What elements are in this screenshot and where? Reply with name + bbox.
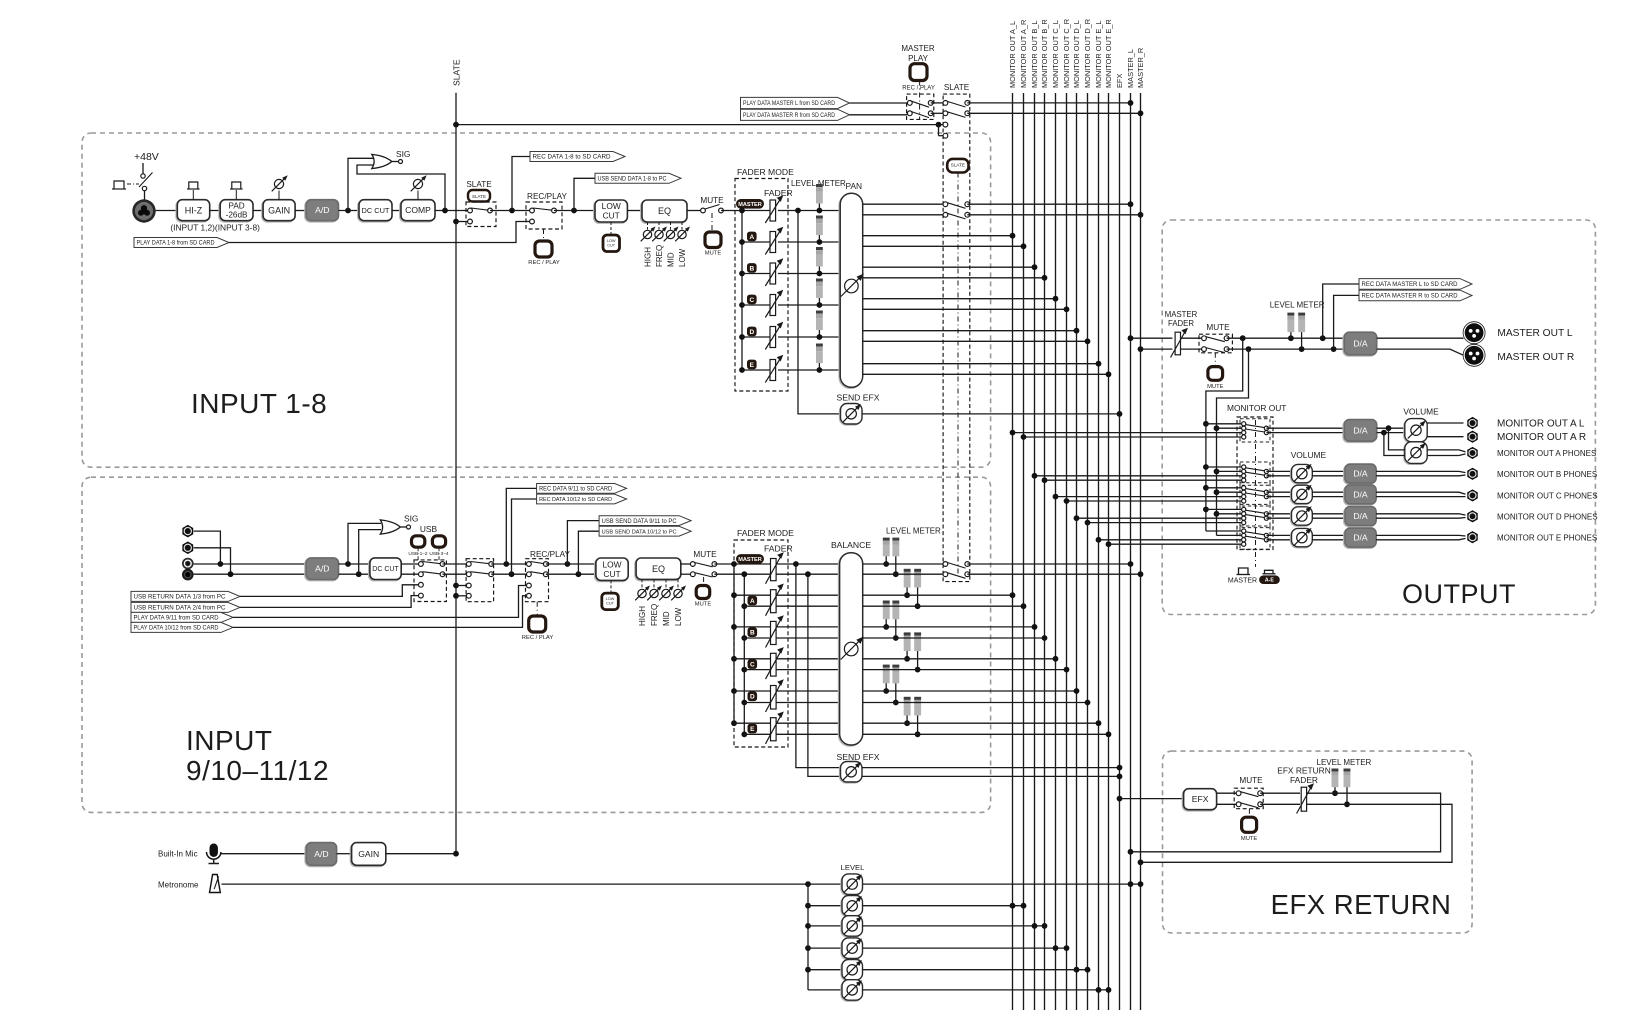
svg-text:MONITOR OUT D_R: MONITOR OUT D_R: [1083, 19, 1092, 88]
svg-text:MASTER_R: MASTER_R: [1136, 48, 1145, 88]
svg-text:SLATE: SLATE: [472, 194, 486, 199]
wire master 9/10 L to MASTER_L bus: [967, 561, 1133, 567]
wire efx return R to MASTER_R bus: [1138, 804, 1452, 865]
wire A/D to DC CUT: [339, 208, 360, 214]
button MUTE (efx return): [1241, 817, 1258, 842]
section label INPUT 9/10-11/12: [186, 725, 329, 786]
block LOW CUT (1-8): [594, 200, 628, 235]
section box EFX RETURN: [1163, 751, 1473, 933]
svg-text:MUTE: MUTE: [693, 550, 717, 559]
svg-text:BALANCE: BALANCE: [831, 540, 871, 550]
wire PLAY DATA MASTER L: [741, 97, 910, 108]
wire mute to D/A (output): [1227, 335, 1345, 352]
wire volume to D/A (monitor D): [1312, 514, 1345, 518]
pill MASTER (9/10): [737, 555, 764, 564]
switch SLATE (9/10): [453, 559, 494, 602]
block D/A (master): [1343, 332, 1377, 356]
wire volume to D/A (monitor C): [1312, 492, 1345, 496]
jack INPUT 11/12 R: [182, 569, 194, 581]
svg-text:A-E: A-E: [1265, 578, 1274, 584]
wire D/A to B PHONES jack: [1376, 471, 1465, 475]
svg-text:D/A: D/A: [1353, 339, 1368, 349]
icon metronome: [210, 875, 221, 893]
svg-text:CUT: CUT: [607, 244, 615, 248]
label Metronome: [158, 880, 199, 889]
wires level knobs to buses: [863, 881, 1144, 993]
wire 9-12 R to A/D: [194, 571, 307, 577]
svg-text:C: C: [749, 297, 754, 304]
svg-text:D/A: D/A: [1353, 533, 1368, 543]
label MONITOR OUT A PHONES: [1497, 449, 1596, 458]
svg-text:USB SEND DATA 1-8 to PC: USB SEND DATA 1-8 to PC: [598, 177, 668, 183]
switch USB (9/10): [414, 560, 446, 602]
svg-text:OUTPUT: OUTPUT: [1402, 579, 1516, 609]
svg-text:PLAY DATA 9/11 from SD CARD: PLAY DATA 9/11 from SD CARD: [134, 615, 220, 622]
svg-text:MONITOR OUT E PHONES: MONITOR OUT E PHONES: [1497, 533, 1597, 542]
svg-text:MUTE: MUTE: [1206, 323, 1230, 332]
wire recplay to lowcut (9/10): [546, 561, 596, 577]
block HI-Z: [176, 182, 210, 222]
svg-text:MUTE: MUTE: [695, 602, 712, 608]
wire PLAY DATA 9/11: [131, 586, 527, 623]
jack MASTER OUT L: [1463, 322, 1485, 344]
svg-text:SLATE: SLATE: [466, 180, 492, 189]
svg-text:MUTE: MUTE: [1239, 776, 1263, 785]
wire USB RETURN DATA 1/3: [131, 585, 419, 602]
meters LEVEL (output): [1287, 313, 1305, 350]
label MONITOR OUT: [1227, 403, 1286, 413]
fader EFX RETURN: [1277, 766, 1331, 814]
svg-text:MUTE: MUTE: [700, 196, 724, 205]
wire mic to A/D: [221, 853, 306, 855]
svg-text:REC/PLAY: REC/PLAY: [530, 550, 570, 559]
box FADER MODE (1-8): [735, 167, 794, 391]
svg-text:D/A: D/A: [1353, 489, 1368, 499]
wire PAD to GAIN: [253, 210, 263, 212]
svg-text:SLATE: SLATE: [944, 83, 970, 92]
wire monitor A D/A to volume: [1377, 425, 1405, 435]
svg-text:USB SEND DATA 10/12 to PC: USB SEND DATA 10/12 to PC: [602, 529, 678, 535]
knob VOLUME (monitor C): [1291, 485, 1313, 505]
block EQ (9/10): [635, 558, 681, 581]
label VOLUME (monitor A): [1403, 407, 1439, 417]
wire mute to fader (efx return): [1260, 793, 1300, 804]
knob SEND EFX (1-8): [837, 393, 880, 426]
wire level knob feed column: [805, 884, 842, 990]
knob VOLUME (monitor D): [1291, 506, 1313, 526]
label MONITOR OUT B PHONES: [1497, 470, 1597, 479]
svg-text:USB RETURN DATA 2/4 from PC: USB RETURN DATA 2/4 from PC: [134, 605, 227, 612]
label USB: [420, 524, 438, 534]
label LEVEL METER (efx return): [1317, 758, 1372, 767]
jack MONITOR OUT B PHONES: [1468, 468, 1478, 479]
svg-text:MONITOR OUT E_R: MONITOR OUT E_R: [1104, 19, 1113, 88]
svg-text:Built-In Mic: Built-In Mic: [158, 850, 198, 859]
label MONITOR OUT E PHONES: [1497, 533, 1597, 542]
svg-text:REC DATA 9/11 to SD CARD: REC DATA 9/11 to SD CARD: [539, 487, 613, 493]
block GAIN (mic): [351, 843, 386, 867]
svg-text:MONITOR OUT: MONITOR OUT: [1227, 403, 1286, 413]
svg-text:SLATE: SLATE: [452, 59, 462, 86]
svg-text:D: D: [749, 329, 754, 336]
wire mute to fader mode: [721, 210, 770, 212]
faders MASTER A-E (1-8): [742, 195, 783, 382]
box MONITOR OUT selects (gang): [1237, 417, 1273, 567]
wire D/A to XLR R: [1377, 349, 1464, 355]
label MASTER OUT L: [1497, 328, 1572, 339]
svg-text:A/D: A/D: [314, 849, 328, 859]
svg-text:FADER MODE: FADER MODE: [737, 167, 794, 177]
svg-text:DC CUT: DC CUT: [372, 566, 399, 573]
svg-text:PAD: PAD: [228, 202, 244, 211]
svg-text:A: A: [749, 234, 754, 241]
wire 9-12 L to A/D: [194, 561, 307, 567]
svg-text:LOW: LOW: [678, 248, 687, 267]
block COMP: [400, 175, 435, 222]
wire pan master L to slate switch: [863, 203, 946, 205]
wires balance out to buses (9/10): [863, 564, 1112, 737]
block D/A (monitor E): [1344, 528, 1376, 548]
svg-text:MONITOR OUT A PHONES: MONITOR OUT A PHONES: [1497, 449, 1596, 458]
wire EFX to mute: [1217, 793, 1239, 804]
label (INPUT 1,2)(INPUT 3-8): [170, 223, 260, 233]
switch MUTE (output): [1199, 323, 1232, 367]
wires pan A-E to monitor buses: [863, 233, 1112, 377]
label Built-In Mic: [158, 850, 198, 859]
svg-text:CUT: CUT: [606, 602, 614, 606]
wire master 9/10 R to MASTER_R bus: [967, 571, 1143, 577]
wire master play L to MASTER_L bus: [967, 100, 1133, 106]
label LEVEL (metronome): [841, 863, 865, 872]
jack INPUT 9/10 L: [183, 525, 221, 564]
svg-text:Metronome: Metronome: [158, 880, 199, 889]
gate SIG detector: [348, 149, 445, 211]
wire USB RETURN DATA 2/4: [131, 596, 419, 613]
wire slate to recplay (9/10): [491, 561, 529, 577]
svg-text:FREQ: FREQ: [650, 604, 659, 626]
button MUTE (9/10): [695, 586, 712, 608]
knob SEND EFX (9/10): [837, 752, 880, 783]
svg-text:SIG: SIG: [404, 514, 418, 524]
button LOW CUT (9/10): [602, 593, 619, 610]
svg-text:LEVEL: LEVEL: [841, 863, 865, 872]
svg-text:HI-Z: HI-Z: [185, 205, 203, 215]
section label OUTPUT: [1402, 579, 1516, 609]
jack MONITOR OUT D PHONES: [1468, 511, 1478, 522]
wire fader mode buses (9/10): [731, 561, 747, 737]
svg-text:B: B: [749, 265, 754, 272]
svg-text:LOW: LOW: [607, 239, 616, 243]
wire REC DATA MASTER L tap: [1323, 279, 1472, 339]
svg-text:PLAY DATA MASTER R from SD CAR: PLAY DATA MASTER R from SD CARD: [743, 112, 836, 119]
svg-text:D/A: D/A: [1353, 425, 1368, 435]
wire monitor A select to D/A: [1266, 428, 1344, 432]
button USB 3-4: [429, 536, 449, 560]
wire USB switch to slate (9/10): [443, 564, 469, 574]
svg-text:MASTER: MASTER: [901, 44, 935, 53]
button REC/PLAY (input 1-8): [528, 241, 560, 266]
wire MASTER_L bus to fader: [1128, 335, 1173, 341]
svg-text:REC / PLAY: REC / PLAY: [528, 260, 560, 266]
svg-text:E: E: [750, 362, 755, 369]
wire jack to HI-Z: [156, 210, 178, 212]
svg-text:EFX: EFX: [1192, 794, 1209, 804]
svg-text:HIGH: HIGH: [638, 606, 647, 626]
button REC/PLAY (9/10): [522, 616, 554, 641]
block D/A (monitor C): [1344, 485, 1376, 505]
label MASTER OUT R: [1497, 352, 1574, 363]
label MONITOR OUT A L: [1497, 419, 1585, 430]
box FADER MODE (9/10): [734, 528, 794, 747]
switch SLATE contacts (master 9/10): [943, 562, 970, 579]
switches MONITOR OUT A-E: [1203, 419, 1270, 549]
wire volume to D/A (monitor E): [1312, 535, 1345, 539]
wire slate to rec/play (1-8): [490, 208, 532, 214]
wire PLAY DATA 10/12: [131, 596, 527, 633]
block D/A (monitor D): [1344, 507, 1376, 527]
jack INPUT 9/10 R: [183, 542, 231, 574]
label FADER (1-8): [764, 188, 793, 198]
svg-text:COMP: COMP: [405, 205, 431, 215]
svg-text:USB RETURN DATA 1/3 from PC: USB RETURN DATA 1/3 from PC: [134, 594, 227, 601]
switch phantom power: [112, 163, 153, 191]
svg-text:REC / PLAY: REC / PLAY: [902, 86, 935, 92]
wire EQ to mute: [687, 210, 703, 212]
wire REC DATA 1-8 tap: [512, 152, 625, 211]
svg-text:PLAY DATA MASTER L from SD CAR: PLAY DATA MASTER L from SD CARD: [743, 100, 836, 107]
node +48V: [134, 151, 159, 163]
svg-text:EQ: EQ: [658, 206, 671, 216]
svg-text:C: C: [750, 662, 755, 669]
svg-text:VOLUME: VOLUME: [1291, 450, 1327, 460]
knob VOLUME (monitor A phones): [1404, 442, 1427, 465]
wires faders to PAN (1-8): [778, 211, 840, 371]
wire phones knob to A PHONES jack: [1427, 450, 1465, 456]
label FADER (9/10): [764, 544, 793, 554]
svg-text:-26dB: -26dB: [226, 211, 248, 220]
wire D/A to E PHONES jack: [1376, 535, 1465, 539]
wire fader mode bus (1-8): [739, 208, 745, 373]
svg-text:SLATE: SLATE: [951, 163, 965, 168]
svg-text:LEVEL METER: LEVEL METER: [1317, 758, 1372, 767]
wire PLAY DATA MASTER R: [741, 109, 910, 120]
switch SLATE contacts (pan master 1-8): [943, 202, 970, 219]
svg-text:MUTE: MUTE: [1207, 384, 1224, 390]
switch MUTE (efx return): [1234, 776, 1263, 817]
pill MASTER (1-8): [737, 200, 764, 209]
svg-text:MONITOR OUT B_R: MONITOR OUT B_R: [1040, 19, 1049, 88]
wire monitor C select to volume: [1266, 492, 1291, 496]
svg-text:REC / PLAY: REC / PLAY: [522, 635, 554, 641]
faders MASTER A-E (9/10): [734, 552, 784, 744]
wire A/D to DC CUT (9/10): [339, 561, 370, 577]
button MUTE (1-8): [705, 232, 722, 257]
wire send efx R to EFX bus (9/10): [862, 774, 1122, 780]
switch REC/PLAY (input 1-8): [526, 192, 567, 241]
button LOW CUT (1-8): [603, 235, 620, 252]
jack INPUT combo (XLR/TRS): [132, 191, 155, 223]
svg-text:EFX RETURN: EFX RETURN: [1277, 766, 1331, 776]
svg-text:VOLUME: VOLUME: [1403, 407, 1439, 417]
wire DC CUT to USB switch: [401, 564, 421, 574]
svg-text:MONITOR OUT B_L: MONITOR OUT B_L: [1030, 21, 1039, 89]
svg-text:REC DATA MASTER R to SD CARD: REC DATA MASTER R to SD CARD: [1362, 293, 1458, 300]
svg-text:MASTER: MASTER: [1165, 310, 1198, 319]
svg-text:INPUT 1-8: INPUT 1-8: [191, 388, 327, 419]
svg-text:MONITOR OUT E_L: MONITOR OUT E_L: [1094, 21, 1103, 89]
jack MONITOR OUT A PHONES: [1468, 447, 1478, 458]
wire pan master R to slate switch: [863, 214, 946, 216]
svg-text:EFX: EFX: [1115, 74, 1124, 88]
svg-text:SEND EFX: SEND EFX: [837, 393, 880, 403]
svg-text:MASTER: MASTER: [738, 202, 762, 208]
switch SLATE contacts (master play): [943, 101, 970, 139]
button MASTER/A-E select: [1228, 568, 1279, 585]
bus labels: [1008, 19, 1145, 88]
wire COMP out: [435, 208, 470, 214]
wire volume A branches to phones knob: [1384, 428, 1405, 455]
svg-text:REC DATA MASTER L to SD CARD: REC DATA MASTER L to SD CARD: [1362, 281, 1458, 288]
wire A/D to GAIN (mic): [337, 853, 352, 855]
svg-text:CUT: CUT: [603, 211, 620, 221]
label LEVEL METER (1-8): [791, 179, 846, 188]
wire monitor E select to volume: [1266, 535, 1291, 539]
svg-text:(INPUT 1,2)(INPUT 3-8): (INPUT 1,2)(INPUT 3-8): [170, 223, 260, 233]
svg-text:USB: USB: [420, 524, 438, 534]
wire slate feed to master play switch: [453, 122, 943, 136]
wire MASTER_R bus to fader: [1138, 346, 1173, 352]
label MONITOR OUT A R: [1497, 432, 1586, 443]
label SLATE (top): [944, 83, 970, 92]
button MUTE (output): [1207, 367, 1224, 390]
label MONITOR OUT D PHONES: [1497, 513, 1598, 522]
svg-text:MONITOR OUT C PHONES: MONITOR OUT C PHONES: [1497, 492, 1598, 501]
jack INPUT 11/12 L: [182, 558, 194, 570]
wire master play L to slate switch: [931, 102, 946, 104]
svg-text:D/A: D/A: [1353, 469, 1368, 479]
fader MASTER (output): [1165, 310, 1198, 358]
svg-text:GAIN: GAIN: [358, 849, 379, 859]
block D/A (monitor B): [1344, 464, 1376, 484]
wire send-efx tap (1-8): [795, 208, 840, 414]
jack MASTER OUT R: [1463, 344, 1485, 366]
block LOW CUT (9/10): [595, 558, 628, 593]
block A/D (input 1-8): [305, 200, 339, 222]
label VOLUME (monitor B-E): [1291, 450, 1327, 460]
wire master L split to monitor selects: [1206, 338, 1243, 531]
wire D/A to D PHONES jack: [1376, 514, 1465, 518]
svg-text:A: A: [750, 598, 755, 605]
knobs EQ HIGH FREQ MID LOW (1-8): [641, 222, 690, 267]
wire pan master L to MASTER_L bus: [967, 201, 1133, 207]
switch MUTE (9/10): [690, 550, 717, 586]
svg-text:PLAY DATA 10/12 from SD CARD: PLAY DATA 10/12 from SD CARD: [134, 625, 219, 632]
svg-text:CUT: CUT: [603, 569, 620, 579]
gate SIG detector (9/10): [348, 514, 418, 575]
svg-text:FADER: FADER: [764, 544, 793, 554]
svg-text:MASTER: MASTER: [738, 557, 762, 563]
svg-text:MASTER OUT R: MASTER OUT R: [1497, 352, 1574, 363]
svg-text:EQ: EQ: [652, 564, 665, 574]
block A/D (mic): [305, 843, 336, 867]
switch REC/PLAY (master play): [907, 81, 934, 120]
knob VOLUME (monitor E): [1291, 528, 1313, 548]
svg-text:MONITOR OUT A R: MONITOR OUT A R: [1497, 432, 1586, 443]
wire master R split to monitor selects: [1217, 349, 1249, 535]
block A/D (9/10): [305, 558, 339, 581]
svg-text:PAN: PAN: [846, 181, 863, 191]
wire volume to D/A (monitor B): [1312, 471, 1345, 475]
svg-text:PLAY DATA 1-8 from SD CARD: PLAY DATA 1-8 from SD CARD: [137, 240, 216, 247]
svg-text:D: D: [750, 694, 755, 701]
jack MONITOR OUT C PHONES: [1468, 490, 1478, 501]
svg-text:MONITOR OUT D_L: MONITOR OUT D_L: [1072, 20, 1081, 88]
block EQ (1-8): [641, 200, 687, 223]
wire HI-Z to PAD: [210, 210, 221, 212]
wire master play R to MASTER_R bus: [967, 110, 1143, 116]
svg-text:MONITOR OUT A_R: MONITOR OUT A_R: [1019, 20, 1028, 88]
block BALANCE: [831, 540, 871, 746]
button REC/PLAY (master play): [902, 64, 935, 92]
svg-text:GAIN: GAIN: [268, 205, 290, 215]
svg-text:EFX RETURN: EFX RETURN: [1271, 889, 1452, 920]
wire send-efx taps (9/10): [793, 561, 841, 776]
block DC CUT: [358, 200, 392, 222]
icon microphone: [207, 844, 221, 864]
svg-text:LOW: LOW: [674, 607, 683, 626]
label MASTER PLAY: [901, 44, 935, 63]
svg-text:+48V: +48V: [134, 151, 159, 163]
svg-text:FREQ: FREQ: [655, 245, 664, 267]
block D/A (monitor A): [1343, 420, 1377, 443]
wire USB SEND 9/11 tap: [567, 516, 691, 564]
wire send efx L to EFX bus (9/10): [862, 765, 1122, 771]
svg-text:MID: MID: [666, 252, 675, 267]
meters LEVEL stereo (9/10): [883, 538, 921, 738]
svg-text:MONITOR OUT C_R: MONITOR OUT C_R: [1062, 19, 1071, 88]
block PAN: [839, 181, 864, 388]
svg-text:LOW: LOW: [606, 597, 615, 601]
svg-text:A/D: A/D: [315, 564, 329, 574]
svg-text:FADER: FADER: [764, 188, 793, 198]
svg-text:MASTER: MASTER: [1228, 578, 1257, 585]
meters LEVEL (efx return): [1332, 769, 1351, 808]
wire USB SEND 1-8 tap: [574, 173, 681, 210]
section label INPUT 1-8: [191, 388, 327, 419]
svg-text:FADER MODE: FADER MODE: [737, 528, 794, 538]
svg-text:MONITOR OUT A L: MONITOR OUT A L: [1497, 419, 1585, 430]
wire GAIN to A/D: [295, 210, 306, 212]
wire fader to mute (output): [1181, 338, 1205, 349]
block GAIN: [262, 175, 295, 222]
section box INPUT 9/10-11/12: [82, 477, 991, 812]
wire lowcut to EQ: [627, 210, 642, 212]
switch REC/PLAY (9/10): [526, 550, 571, 616]
wire monitor B select to volume: [1266, 471, 1291, 475]
wire EFX bus to EFX block: [1117, 796, 1184, 802]
svg-text:MONITOR OUT A_L: MONITOR OUT A_L: [1008, 21, 1017, 88]
svg-text:MASTER_L: MASTER_L: [1126, 49, 1135, 88]
svg-text:E: E: [750, 726, 755, 733]
knobs EQ HIGH FREQ MID LOW (9/10): [635, 579, 686, 626]
wire master play R to slate switch: [931, 112, 946, 114]
svg-text:LEVEL METER: LEVEL METER: [1270, 301, 1325, 310]
wire REC DATA 9/11 tap: [506, 484, 626, 565]
wire recplay to lowcut: [554, 208, 595, 214]
svg-text:FADER: FADER: [1168, 319, 1194, 328]
svg-text:MUTE: MUTE: [705, 251, 722, 257]
wire EQ to mute (9/10): [681, 564, 693, 574]
